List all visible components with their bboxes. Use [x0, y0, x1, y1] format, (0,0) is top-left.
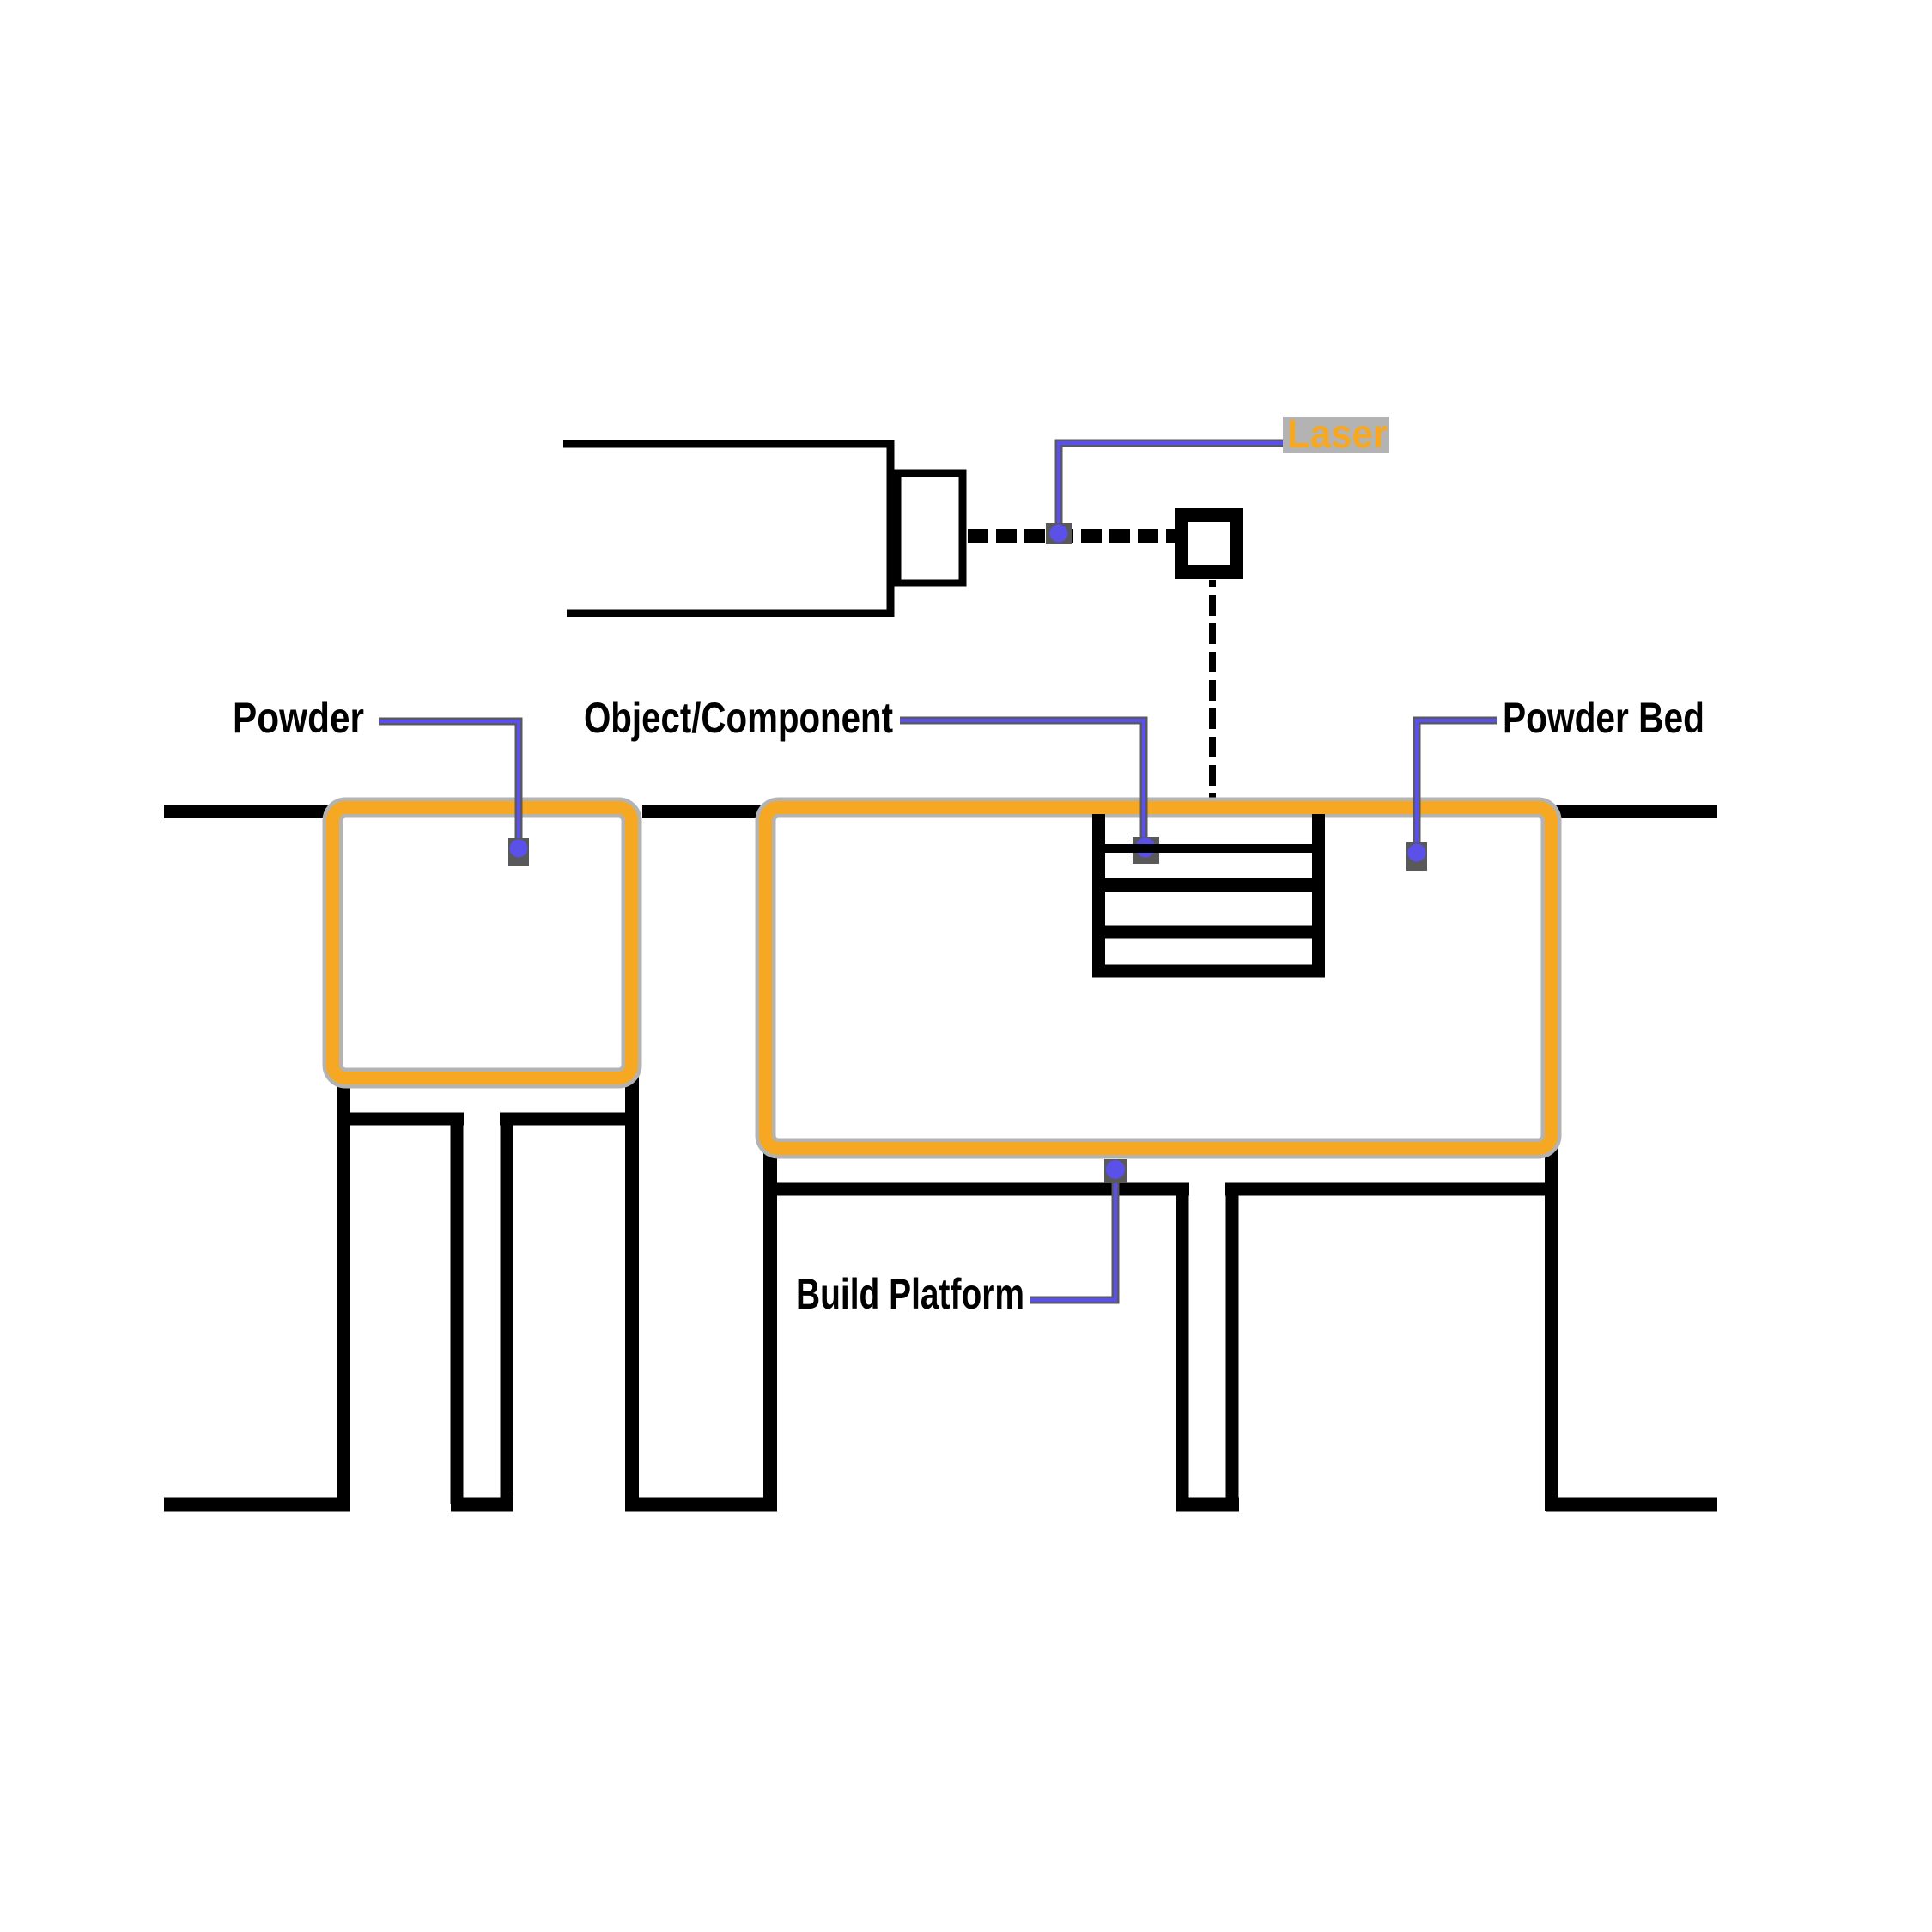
object bottom line [1092, 965, 1325, 978]
laser label [1283, 417, 1389, 453]
powder bed container orange outline [766, 808, 1552, 1149]
powder container orange outline [333, 808, 632, 1078]
object layer line 2 [1092, 878, 1325, 892]
svg-text:Powder: Powder [233, 694, 364, 742]
bed container right wall [1545, 1146, 1558, 1511]
laser beam horizontal dashed [968, 529, 1175, 543]
scanner mirror square [1182, 515, 1236, 572]
powder callout line [379, 721, 519, 848]
laser callout dot [1046, 523, 1072, 544]
object left wall [1092, 814, 1105, 971]
trench bottom cap between containers [625, 1498, 777, 1512]
powder container right wall [625, 1073, 639, 1511]
powder piston stem right line [501, 1113, 513, 1504]
table surface line left segment [164, 805, 343, 818]
build piston stem left line [1176, 1183, 1189, 1504]
ground line left [164, 1498, 350, 1512]
powder piston stem bottom cap [451, 1498, 513, 1512]
powder piston stem left line [451, 1113, 464, 1504]
build piston stem right line [1226, 1183, 1239, 1504]
powder callout dot [508, 838, 529, 866]
svg-text:Object/Component: Object/Component [584, 694, 893, 742]
object right wall [1312, 814, 1325, 971]
laser nozzle [897, 473, 963, 583]
laser beam vertical dashed [1209, 580, 1216, 805]
svg-text:Build Platform: Build Platform [796, 1270, 1024, 1318]
object callout line [900, 720, 1144, 847]
build piston stem bottom cap [1176, 1498, 1239, 1512]
bed container left wall [763, 1142, 777, 1511]
powder bed callout line [1417, 720, 1497, 853]
powder container halo [333, 808, 632, 1078]
laser callout line [1059, 443, 1285, 533]
table surface line middle segment [642, 805, 764, 818]
object callout dot [1133, 837, 1159, 864]
powder bed container halo [766, 808, 1552, 1149]
svg-text:Powder Bed: Powder Bed [1503, 694, 1704, 742]
build piston platform left part [764, 1183, 1189, 1196]
object layer line 3 [1092, 926, 1325, 939]
object layer line 1 [1092, 844, 1325, 853]
table surface line right segment [1551, 805, 1717, 818]
powder bed callout dot [1406, 842, 1427, 871]
laser housing body [563, 444, 890, 613]
ground line right [1546, 1498, 1717, 1512]
svg-text:Laser: Laser [1287, 411, 1388, 456]
powder piston platform right part [500, 1113, 639, 1126]
build platform callout line [1030, 1170, 1115, 1300]
powder container left wall [337, 1073, 350, 1511]
powder piston platform left part [337, 1113, 464, 1126]
build platform callout dot [1104, 1159, 1127, 1183]
build piston platform right part [1225, 1183, 1554, 1196]
